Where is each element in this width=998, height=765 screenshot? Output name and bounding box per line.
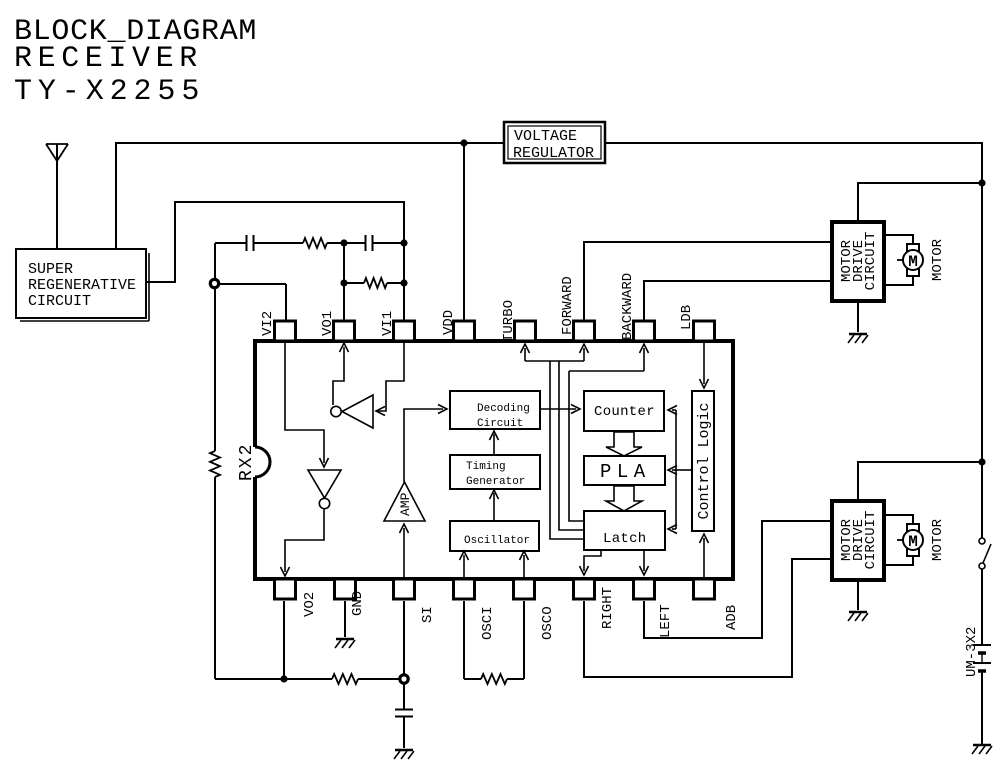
svg-text:CIRCUIT: CIRCUIT [863, 232, 879, 291]
svg-text:Latch: Latch [603, 531, 647, 547]
svg-text:VO2: VO2 [302, 592, 318, 617]
svg-text:OSCO: OSCO [540, 606, 556, 640]
svg-text:SUPER: SUPER [28, 261, 73, 278]
svg-text:REGULATOR: REGULATOR [513, 145, 594, 162]
svg-text:VI1: VI1 [380, 311, 396, 336]
svg-text:VDD: VDD [441, 310, 457, 335]
svg-text:AMP: AMP [398, 492, 413, 516]
svg-text:VOLTAGE: VOLTAGE [514, 128, 577, 145]
svg-text:Counter: Counter [594, 404, 655, 420]
svg-text:CIRCUIT: CIRCUIT [28, 293, 91, 310]
svg-text:RIGHT: RIGHT [600, 587, 616, 629]
svg-text:ADB: ADB [724, 605, 740, 630]
svg-text:Timing: Timing [466, 461, 506, 473]
svg-text:Generator: Generator [466, 476, 525, 488]
svg-text:M: M [908, 253, 918, 271]
svg-text:MOTOR: MOTOR [930, 518, 946, 561]
svg-text:Circuit: Circuit [477, 418, 523, 430]
svg-text:CIRCUIT: CIRCUIT [863, 511, 879, 570]
svg-text:GND: GND [350, 591, 366, 616]
svg-text:SI: SI [420, 606, 436, 623]
svg-text:OSCI: OSCI [480, 606, 496, 640]
svg-text:LDB: LDB [679, 305, 695, 330]
svg-text:Decoding: Decoding [477, 403, 530, 415]
svg-text:BACKWARD: BACKWARD [620, 273, 636, 340]
svg-text:VI2: VI2 [260, 311, 276, 336]
svg-text:Oscillator: Oscillator [464, 535, 530, 547]
svg-text:FORWARD: FORWARD [560, 276, 576, 335]
svg-text:PLA: PLA [600, 461, 651, 483]
svg-text:RX2: RX2 [237, 443, 257, 481]
svg-text:VO1: VO1 [320, 311, 336, 336]
svg-text:Control Logic: Control Logic [696, 402, 713, 519]
svg-text:REGENERATIVE: REGENERATIVE [28, 277, 136, 294]
svg-text:TURBO: TURBO [501, 300, 517, 342]
svg-text:RECEIVER: RECEIVER [14, 42, 203, 76]
svg-text:UM-3X2: UM-3X2 [964, 627, 980, 677]
svg-text:MOTOR: MOTOR [930, 238, 946, 281]
svg-text:LEFT: LEFT [658, 604, 674, 638]
svg-text:M: M [908, 533, 918, 551]
svg-text:TY-X2255: TY-X2255 [14, 75, 205, 109]
